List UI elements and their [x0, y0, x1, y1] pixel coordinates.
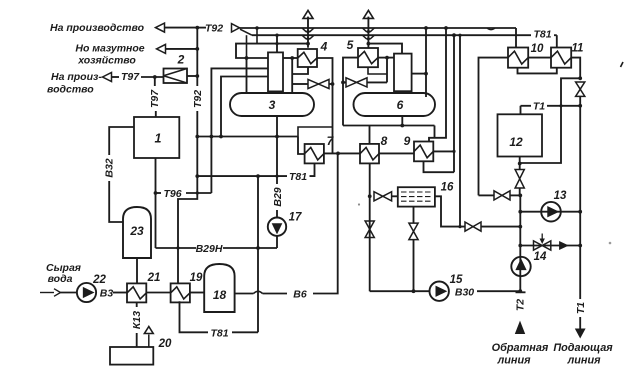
node junction valve A out — [331, 82, 335, 86]
wire HX7 to HX8 — [324, 152, 360, 154]
water tank 16 label — [441, 182, 454, 194]
wire В6 line left — [235, 293, 254, 295]
node junction vent B upper — [367, 30, 370, 33]
heat exchanger 9 — [414, 142, 433, 162]
node Т81 top label — [533, 29, 551, 41]
wire Т92 riser lower — [196, 111, 198, 193]
wire ejector 2 to Т92 riser — [187, 75, 197, 77]
svg-text:14: 14 — [534, 251, 547, 263]
wire Т81 line left — [197, 175, 287, 177]
svg-text:15: 15 — [450, 274, 463, 286]
node junction rect12 bottom — [518, 162, 522, 166]
wire pump17 bottom — [276, 236, 278, 248]
wire HX9 top feed — [429, 28, 446, 142]
valve below-left HX5 — [346, 78, 367, 87]
svg-text:23: 23 — [129, 224, 144, 238]
wire rect12 bottom drop — [519, 157, 521, 170]
wire HX4 valve left lead — [292, 83, 308, 85]
boiler 1 label — [155, 132, 162, 146]
wire HX8 top feed — [369, 126, 371, 144]
wire valve B right lead — [367, 81, 387, 83]
wire HX4 left drop to valve — [291, 58, 293, 84]
node junction lower valve line — [458, 34, 461, 37]
node junction drum6/manifold — [400, 124, 404, 128]
svg-text:Т81: Т81 — [210, 328, 228, 340]
heat exchanger 11 label — [572, 43, 584, 55]
svg-text:6: 6 — [397, 98, 404, 112]
arrow vent 20 (hollow, up) — [144, 327, 153, 334]
svg-text:линия: линия — [566, 355, 601, 367]
wire capsule3 top-left feed — [246, 58, 248, 93]
svg-text:Т81: Т81 — [289, 171, 307, 183]
wire HX9 bottom loop — [424, 161, 455, 172]
wire Т1 label line right — [547, 105, 580, 107]
wire header to lower valve line — [459, 35, 461, 226]
svg-text:18: 18 — [213, 288, 227, 302]
node junction riser/valve line2 — [518, 225, 522, 229]
svg-text:Т1: Т1 — [533, 101, 545, 113]
node Подающая линия label — [553, 342, 613, 367]
node Т92 rotated label — [192, 90, 204, 108]
wire Т1 riser lower — [579, 246, 581, 300]
wire HX10-HX11 mid — [528, 57, 551, 59]
svg-text:Т92: Т92 — [192, 90, 204, 108]
arrow to production (hollow, left) — [156, 23, 165, 32]
svg-text:водство: водство — [47, 84, 94, 96]
svg-text:Т2: Т2 — [514, 299, 526, 311]
node Т97 rotated label — [149, 89, 161, 108]
svg-text:линия: линия — [496, 355, 531, 367]
svg-text:13: 13 — [554, 190, 567, 202]
wire A y43.6 line — [236, 44, 308, 58]
tank 23 — [123, 207, 151, 258]
wire Т1 riser mid — [579, 106, 581, 246]
wire HX11 right out — [571, 58, 580, 79]
svg-text:хозяйство: хозяйство — [77, 55, 136, 67]
notch lower header at arrow B — [362, 35, 374, 39]
node junction HX5 right — [385, 56, 389, 60]
wire lower header drop to HX11 — [556, 35, 558, 47]
notch lower header at arrow A — [302, 35, 314, 39]
arrow to production 2 (hollow, left) — [103, 73, 112, 82]
node junction Т81/В29 — [256, 174, 260, 178]
wire lower header cont — [554, 34, 557, 36]
svg-text:В32: В32 — [104, 158, 116, 177]
node В30 label — [455, 287, 474, 299]
node junction HX9 right — [452, 150, 455, 153]
wire manifold B — [343, 125, 435, 127]
valve tank16 to riser — [465, 222, 481, 231]
arrow vent A (hollow, up) — [303, 10, 313, 18]
wire Т97 riser upper — [154, 77, 156, 86]
wire HX10 left feed — [479, 58, 509, 196]
tall rect B — [394, 54, 412, 92]
wire B y43.6 line — [368, 44, 402, 54]
valve below HX4 — [308, 79, 329, 88]
heat exchanger 5 label — [347, 38, 354, 52]
node Т2 rotated label — [514, 299, 526, 311]
pump 17 — [268, 218, 286, 236]
valve below rect12 — [515, 170, 524, 189]
tank 23 label — [129, 224, 144, 238]
wire vent B line — [367, 17, 369, 48]
node junction tall rect A feed/y43.6 — [275, 42, 278, 45]
hop upper header — [487, 28, 495, 30]
svg-text:8: 8 — [381, 134, 388, 148]
node В29Н label — [196, 243, 223, 255]
node На производство 2 label — [47, 71, 102, 96]
node junction A2/manifold — [219, 135, 223, 139]
pump 14 — [511, 257, 530, 276]
node В29 rotated label — [272, 187, 284, 206]
node Т1 label top — [533, 101, 545, 113]
arrow inlet — [54, 289, 61, 297]
svg-text:4: 4 — [320, 40, 328, 54]
node junction vent A upper — [306, 30, 309, 33]
wire stub above HX7 — [298, 127, 333, 137]
node На производство label — [50, 22, 145, 34]
wire pump15 line left — [370, 290, 430, 292]
pump 15 label — [450, 274, 463, 286]
pump 13 — [541, 202, 561, 222]
wire Т1 label line — [521, 105, 532, 107]
svg-text:11: 11 — [572, 43, 584, 55]
heat exchanger 8 label — [381, 134, 388, 148]
tank 18 label — [213, 288, 227, 302]
node junction riser/valve16 line — [518, 194, 522, 198]
wire inlet to pump22 — [61, 292, 78, 294]
node junction HX8 drop/valve16 — [368, 194, 372, 198]
boiler 12 label — [509, 135, 523, 149]
wire tank16 bottom drop upper — [413, 207, 415, 224]
wire upper header stub down — [256, 28, 258, 44]
node junction upper header stub — [255, 26, 259, 30]
wire Т2 terminal tick — [516, 291, 526, 293]
wire upper header drop to HX10 — [515, 28, 517, 48]
pump 15 — [430, 282, 449, 301]
pump 14 label — [534, 251, 547, 263]
arrow to fuel-oil facility (hollow, left) — [157, 44, 166, 53]
wire HX10-HX11 bottom loop — [518, 68, 557, 74]
svg-text:Подающая: Подающая — [553, 342, 613, 354]
node В32 rotated label — [104, 158, 116, 177]
node Т97 label horizontal — [121, 71, 140, 83]
heat exchanger 7 — [305, 144, 324, 163]
wire to T92 label — [197, 27, 206, 29]
svg-text:21: 21 — [147, 272, 161, 284]
wire valve stem arrow — [540, 234, 545, 245]
node junction pump15 line — [412, 289, 416, 293]
tank 20 — [110, 347, 153, 365]
node junction vent B dot — [367, 42, 371, 46]
svg-text:Но мазутное: Но мазутное — [75, 43, 144, 55]
ejector 2 label — [177, 53, 185, 67]
steam drum 6 label — [397, 98, 404, 112]
svg-text:12: 12 — [509, 135, 523, 149]
node junction HX4 left — [290, 56, 294, 60]
wire drum6 bottom drop — [401, 116, 403, 126]
wire В32 line from boiler 1 — [109, 127, 134, 155]
tank 18 — [204, 264, 234, 312]
node junction HX19 drop / В29Н — [176, 246, 179, 249]
water tank 16 — [398, 187, 435, 206]
wire tall rect B right stub — [412, 73, 426, 75]
node junction bypass/Т1 line — [559, 104, 562, 107]
node Т1 rotated label — [575, 302, 587, 314]
node junction header/capsule6 line — [424, 26, 428, 30]
wire В29Н left — [156, 247, 197, 249]
wire HX8 to HX9 — [379, 152, 414, 154]
wire В29 pump drop lower — [276, 210, 278, 218]
pump 17 label — [289, 212, 302, 224]
node junction Т1 riser/check line — [578, 244, 582, 248]
wire header split — [240, 29, 252, 35]
wire В6 riser — [257, 176, 259, 332]
wire riser upper — [519, 188, 521, 196]
wire Т81 bottom left — [180, 301, 209, 332]
wire В3 line — [113, 292, 127, 294]
wire Т96 line right — [186, 192, 211, 194]
node Т92 label top — [205, 23, 223, 35]
wire В32 line lower — [109, 181, 123, 222]
wire riser valve to junction — [579, 96, 581, 105]
node Сырая вода label — [46, 262, 81, 285]
steam drum 3 — [230, 93, 314, 116]
valve before tank16 — [374, 192, 392, 201]
node junction valve B left — [341, 81, 345, 85]
node junction bypass top — [578, 76, 582, 80]
valve on check line — [534, 241, 551, 250]
svg-text:К13: К13 — [131, 311, 143, 329]
wire valve B left lead — [343, 81, 346, 83]
wire production arrow line — [165, 27, 198, 29]
node junction riser/В30 — [518, 289, 522, 293]
wire Т81 bottom line — [232, 331, 258, 333]
wire Т92 riser upper — [196, 28, 198, 86]
wire riser valve line — [479, 194, 495, 196]
wire check line — [520, 245, 580, 247]
heat exchanger 21 — [127, 283, 146, 302]
arrow T92 (hollow, right) — [232, 24, 240, 32]
node junction Т96 start — [154, 191, 158, 195]
wire manifold B right end — [434, 126, 436, 138]
node junction drum3/manifold — [275, 135, 279, 139]
svg-text:Т1: Т1 — [575, 302, 587, 314]
node junction В29Н/В6 riser — [256, 246, 260, 250]
check valve (filled) — [559, 241, 569, 250]
svg-text:10: 10 — [531, 43, 544, 55]
node junction ejector out — [195, 74, 199, 78]
boiler 1 — [134, 117, 179, 158]
svg-text:16: 16 — [441, 182, 454, 194]
node junction T92 top — [195, 26, 199, 30]
wire Т97 riser lower to boiler 1 — [155, 111, 157, 117]
wire header to HX9 loop — [453, 35, 455, 172]
node Обратная линия label — [492, 342, 549, 367]
svg-text:На производство: На производство — [50, 22, 145, 34]
wire HX5 left line — [343, 58, 358, 126]
wire В29Н right — [223, 247, 277, 249]
pump 22 label — [92, 274, 106, 286]
wire lower steam header — [252, 34, 531, 36]
wire pump13 line — [520, 211, 580, 213]
svg-text:В29: В29 — [272, 187, 284, 206]
ejector 2 — [164, 69, 188, 84]
wire HX4 valve right lead — [329, 83, 333, 85]
heat exchanger 21 label — [147, 272, 161, 284]
svg-text:Т81: Т81 — [533, 29, 551, 41]
svg-text:20: 20 — [158, 338, 172, 350]
svg-text:В30: В30 — [455, 287, 474, 299]
svg-text:Т97: Т97 — [121, 71, 140, 83]
svg-text:Обратная: Обратная — [492, 342, 549, 354]
heat exchanger 8 — [360, 144, 379, 164]
tank 20 label — [158, 338, 172, 350]
wire tall rect A to HX4 — [283, 57, 298, 59]
node junction capsule3 top line — [245, 56, 249, 60]
valve on HX8 drop — [365, 221, 374, 238]
wire manifold A into HX7 — [298, 137, 305, 155]
wire HX4 right drop — [317, 58, 333, 153]
svg-text:В3: В3 — [100, 288, 114, 300]
node junction Т92/Т81 line — [195, 174, 199, 178]
node junction Т97 line — [153, 75, 157, 79]
notch upper header at arrow B — [362, 28, 374, 32]
wire tall rect A top feed — [276, 35, 278, 52]
node junction Т92/manifold — [195, 135, 199, 139]
wire fuel-oil arrow line — [166, 48, 198, 50]
wire В6 line mid — [263, 293, 288, 295]
wire HX7 bottom to Т81 line — [310, 163, 315, 176]
svg-text:Т97: Т97 — [149, 89, 161, 108]
wire capsule3 second top feed — [291, 84, 293, 93]
node junction vent A lower — [306, 37, 309, 40]
svg-text:Т92: Т92 — [205, 23, 223, 35]
svg-text:В6: В6 — [293, 289, 307, 301]
heat exchanger 19 label — [190, 272, 203, 284]
wire tank23 outlet — [136, 258, 138, 283]
svg-text:19: 19 — [190, 272, 203, 284]
wire HX21 to HX19 — [146, 292, 170, 294]
node В3 label — [100, 288, 114, 300]
wire valve to riser — [481, 226, 520, 228]
node junction vent B lower — [367, 37, 370, 40]
svg-text:В29Н: В29Н — [196, 243, 223, 255]
node junction tall rect A top — [275, 34, 278, 37]
arrow vent B (hollow, up) — [363, 10, 373, 18]
node junction fuel-oil line — [195, 47, 199, 51]
wire Т97 label to ejector — [141, 76, 164, 78]
wire valve to riser upper right — [510, 194, 520, 196]
node junction Т81/В29 pump line — [275, 175, 278, 178]
node junction Т1 line — [578, 104, 582, 108]
node junction lower valve feed — [458, 225, 461, 228]
tall rect A — [268, 52, 283, 91]
wire HX8 bottom drop — [369, 163, 371, 291]
boiler 12 — [498, 114, 543, 156]
wire rect12 top feed — [520, 106, 522, 115]
node Т81 bottom label — [210, 328, 228, 340]
node junction riser/pump13 — [518, 210, 522, 214]
wire Т1 terminal — [579, 317, 581, 331]
wire boiler 1 bottom drop — [155, 158, 157, 248]
node Но мазутное хозяйство label — [75, 43, 144, 67]
wire vent 20 — [148, 335, 150, 348]
svg-text:9: 9 — [404, 134, 411, 148]
node junction В6 riser top — [336, 152, 340, 156]
node junction riser/check line — [518, 244, 522, 248]
wire В6 line right — [313, 153, 338, 293]
wire В29 pump drop upper — [276, 176, 278, 184]
wire drop to HX19 upper — [178, 193, 197, 284]
valve to riser upper — [494, 191, 510, 200]
valve on Т1 riser top — [576, 82, 585, 96]
node К13 rotated label — [131, 311, 143, 329]
node junction stub/capsule6 feed — [424, 72, 428, 76]
wire bypass left leg — [520, 78, 581, 163]
heat exchanger 9 label — [404, 134, 411, 148]
wire tank16 bottom drop lower — [413, 240, 415, 292]
wire К13 lower — [136, 333, 138, 347]
heat exchanger 5 — [358, 48, 378, 67]
wire В30 line — [477, 290, 520, 292]
wire HX9 right — [433, 150, 454, 152]
svg-text:вода: вода — [48, 273, 73, 285]
wire valve to tank16 — [392, 195, 398, 197]
heat exchanger 10 — [508, 48, 528, 68]
node junction vent A dot — [306, 42, 310, 46]
arrow Т1 (filled, down) — [575, 329, 586, 339]
heat exchanger 4 label — [320, 40, 328, 54]
svg-text:1: 1 — [155, 132, 162, 146]
pump 22 — [77, 283, 96, 302]
node junction lower header/HX9 loop — [452, 33, 456, 37]
wire Т2 riser — [519, 195, 521, 292]
svg-text:На произ-: На произ- — [51, 71, 102, 83]
speck artifact — [358, 62, 623, 244]
wire drum3 bottom drop — [276, 116, 278, 137]
node Т96 label — [163, 188, 181, 200]
wire vent A line — [307, 17, 309, 48]
node В6 label — [293, 289, 307, 301]
wire column drop A1 — [211, 68, 268, 193]
node junction A1/manifold — [210, 135, 214, 139]
notch upper header at arrow A — [302, 28, 314, 32]
wire tank16 right out — [435, 196, 465, 226]
heat exchanger 4 — [298, 49, 317, 67]
wire drum3 drop to Т81 line — [276, 137, 278, 177]
wire К13 upper — [136, 302, 138, 307]
node junction header/HX9 line — [444, 26, 448, 30]
svg-text:17: 17 — [289, 212, 302, 224]
svg-text:2: 2 — [177, 53, 185, 67]
node junction Т96/Т92 riser — [196, 191, 199, 194]
wire capsule6 top feed — [425, 28, 427, 97]
wire inlet line — [40, 292, 54, 294]
wire HX4 bottom stub — [292, 67, 308, 74]
steam drum 3 label — [269, 98, 276, 112]
heat exchanger 19 — [171, 283, 190, 302]
pump 13 label — [554, 190, 567, 202]
wire HX5 right to tall rect — [378, 57, 394, 59]
wire manifold A — [197, 136, 298, 138]
wire v387 — [386, 58, 388, 83]
steam drum 6 — [354, 93, 436, 116]
wire column drop A2 — [221, 77, 268, 137]
wire Т96 stub — [156, 192, 162, 194]
svg-text:5: 5 — [347, 38, 354, 52]
node junction Т1 riser/pump13 — [578, 210, 582, 214]
